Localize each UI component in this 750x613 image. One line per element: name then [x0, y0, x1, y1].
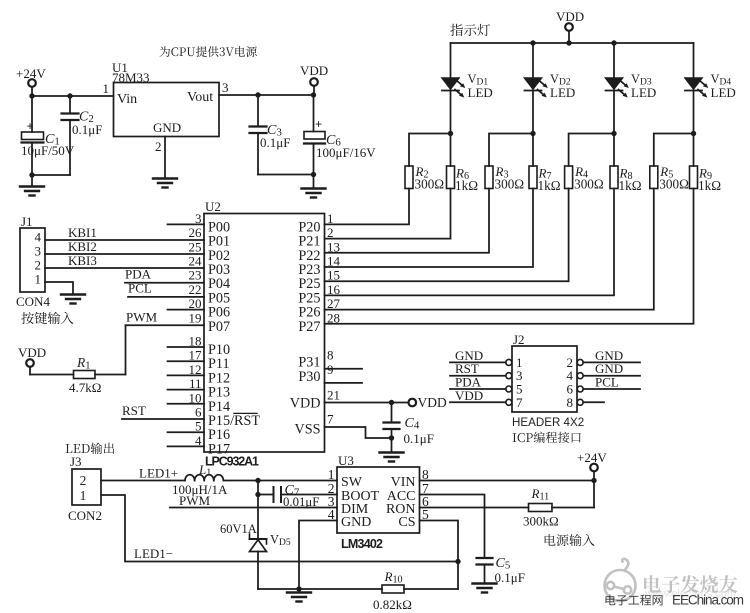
pin name P13 [208, 385, 230, 401]
wire node to R2 [409, 134, 451, 167]
wire SW node down to C7 node [257, 481, 259, 495]
pin number 28 (right) [327, 310, 340, 325]
svg-text:10μF/50V: 10μF/50V [21, 143, 75, 158]
svg-text:P27: P27 [298, 319, 320, 335]
svg-text:300Ω: 300Ω [574, 177, 604, 192]
svg-text:8: 8 [567, 395, 574, 410]
pin number 24 (left) [189, 254, 203, 269]
J2 pin 6 number [567, 382, 574, 397]
wire PWM to DIM [170, 493, 337, 508]
svg-text:Vin: Vin [117, 92, 137, 107]
svg-text:LED: LED [468, 85, 493, 100]
resistor R11 300k [523, 486, 559, 529]
node C3 tap [255, 92, 260, 97]
U3 pin name ACC [387, 481, 429, 504]
svg-text:13: 13 [327, 239, 340, 254]
wire C4 bottom [391, 429, 393, 438]
svg-text:6: 6 [195, 405, 202, 420]
connector J3 CON2 [68, 454, 102, 523]
J3 pin 1 number [80, 488, 87, 503]
svg-text:300kΩ: 300kΩ [523, 514, 559, 529]
svg-text:KBI1: KBI1 [68, 225, 97, 240]
pin name P25 (right) [298, 290, 320, 306]
wire node to R6 [450, 134, 452, 167]
wire C4 top [391, 403, 393, 423]
U3 pin name SW [328, 467, 363, 490]
svg-text:+24V: +24V [16, 66, 46, 81]
J2 pin 2 number [567, 355, 574, 370]
svg-text:Vout: Vout [187, 90, 213, 105]
resistor R5 300ohm [650, 164, 689, 192]
wire U2 VDD pin 21 [290, 388, 409, 412]
pin name P31 [298, 348, 333, 371]
node B (C2 tap) [67, 93, 72, 98]
capacitor C5 [477, 556, 525, 585]
wire J2 pin 5 (PDA) [450, 375, 506, 390]
node U3 GND rail [296, 586, 301, 591]
watermark ghost text [644, 588, 736, 600]
svg-text:22: 22 [189, 282, 202, 297]
wire R10 to CS riser [404, 562, 458, 590]
pin name P27 (right) [298, 319, 320, 335]
svg-text:0.82kΩ: 0.82kΩ [373, 597, 412, 612]
svg-text:RST: RST [122, 403, 146, 418]
node LED3 split [611, 131, 616, 136]
wire PDA to P04 [125, 282, 204, 284]
svg-text:+24V: +24V [577, 450, 607, 465]
wire LED VD1 cathode to node [450, 91, 452, 134]
wire J2 pin 4 (GND) [583, 361, 640, 376]
svg-text:4: 4 [35, 230, 42, 245]
U3 pin name DIM [328, 494, 369, 517]
pin name P02 [208, 248, 230, 264]
resistor R9 1kohm [690, 166, 722, 194]
wire C6 bottom [313, 144, 315, 175]
wire J2 pin 1 (GND) [450, 348, 506, 363]
resistor R7 1kohm [529, 166, 561, 194]
footer text EE site [605, 593, 744, 608]
svg-text:RST: RST [234, 413, 260, 429]
node C6 gnd [311, 172, 316, 177]
svg-text:VDD: VDD [18, 345, 46, 360]
pin number 13 (right) [327, 239, 340, 254]
svg-text:LM3402: LM3402 [341, 537, 383, 551]
wire RON to R11 [420, 507, 529, 509]
wire C6 top [313, 95, 315, 132]
svg-text:7: 7 [516, 395, 523, 410]
U3 pin name CS [398, 507, 429, 530]
svg-text:+: + [315, 118, 322, 132]
svg-text:23: 23 [189, 268, 202, 283]
MCU U2 LPC932A1 body [204, 199, 325, 469]
capacitor C4 [384, 416, 434, 446]
pin number 16 (right) [327, 282, 341, 297]
svg-text:PCL: PCL [128, 281, 152, 296]
svg-text:1: 1 [35, 272, 42, 287]
wire R1 to PWM riser [95, 325, 126, 374]
pin name P25 (right) [298, 276, 320, 292]
wire C3-C6 bottom join [258, 174, 314, 176]
node LED1-/CS/R10 [455, 559, 460, 564]
power terminal VDD (U2) [409, 395, 447, 410]
svg-text:U2: U2 [205, 199, 221, 214]
capacitor C3 [250, 123, 291, 150]
wire C2 bottom [69, 120, 71, 175]
pin number 2 (right) [327, 225, 334, 240]
svg-text:0.1μF: 0.1μF [404, 431, 434, 446]
svg-text:PWM: PWM [126, 309, 158, 324]
wire ACC to C5 [420, 495, 485, 559]
node VIN +24V [591, 478, 596, 483]
wire LED VD2 cathode to node [532, 91, 534, 134]
wire P31 stub [325, 368, 363, 370]
pin name P12 [208, 370, 230, 386]
wire C2 top [69, 96, 71, 114]
node rail-VDD [566, 40, 571, 45]
node C4 top [389, 400, 394, 405]
label HEADER 4X2 [512, 416, 584, 429]
node rail LED2 [530, 40, 535, 45]
svg-text:VDD: VDD [290, 396, 321, 412]
wire CS to node [420, 521, 459, 562]
svg-text:19: 19 [189, 310, 202, 325]
svg-text:28: 28 [327, 310, 340, 325]
power terminal +24V (driver) [577, 450, 607, 481]
svg-text:300Ω: 300Ω [415, 177, 445, 192]
wire C7 to BOOT [281, 494, 337, 496]
svg-text:27: 27 [327, 296, 341, 311]
node C4 bottom [389, 435, 394, 440]
svg-text:GND: GND [341, 515, 371, 530]
svg-text:25: 25 [189, 239, 202, 254]
label VD1 [468, 72, 493, 100]
J2 pin 8 number [567, 395, 574, 410]
resistor R10 0.82k [373, 569, 412, 612]
svg-text:300Ω: 300Ω [659, 177, 689, 192]
wire LED VD3 cathode to node [613, 91, 615, 134]
ground below C6 [302, 175, 326, 198]
caption: ICP programming port [513, 432, 581, 443]
svg-text:LED: LED [550, 85, 575, 100]
LED VD1 [442, 78, 465, 98]
svg-text:KBI3: KBI3 [68, 253, 97, 268]
pin number 10 (left) [189, 390, 202, 405]
wire C1-C2 bottom join [32, 174, 70, 176]
pin number 19 (left) [189, 310, 202, 325]
diode VD5 60V1A [220, 522, 291, 552]
node C1 gnd [29, 172, 34, 177]
caption: LED output [66, 442, 115, 454]
resistor R1 4.7k [69, 355, 101, 395]
pin number 14 (right) [327, 254, 341, 269]
J1 pin 3 number [35, 244, 42, 259]
caption: key input [21, 312, 73, 324]
label KBI3 [68, 253, 97, 268]
wire P20 pin 1 to resistor [325, 189, 410, 225]
svg-text:J1: J1 [21, 214, 33, 229]
wire U2 VSS pin 7 [294, 412, 391, 439]
pin name P16 [208, 427, 230, 443]
pin number 22 (left) [189, 282, 202, 297]
resistor R6 1kohm [447, 166, 479, 194]
node C6 tap [311, 92, 316, 97]
wire J1.1 to ground [45, 282, 73, 295]
svg-text:1kΩ: 1kΩ [619, 178, 642, 193]
ground below U1 [153, 179, 177, 188]
svg-text:2: 2 [35, 258, 42, 273]
pin name P14 [208, 399, 230, 415]
wire P13 stub [168, 389, 205, 391]
wire L1 to SW [223, 480, 337, 482]
svg-text:15: 15 [327, 268, 340, 283]
pin number 27 (right) [327, 296, 341, 311]
power terminal VDD (LED rail) [556, 9, 584, 43]
svg-text:21: 21 [327, 388, 340, 403]
wire rail to LED VD4 [693, 43, 695, 78]
wire P24 pin 15 to resistor [325, 189, 569, 282]
pin name P10 [208, 342, 230, 358]
wire P11 stub [168, 360, 205, 362]
svg-text:+: + [27, 120, 34, 134]
power terminal +24V [16, 66, 46, 87]
pin name P22 (right) [298, 248, 320, 264]
wire P12 stub [168, 374, 205, 376]
wire U3 GND to ground rail [299, 521, 337, 590]
svg-text:1kΩ: 1kΩ [698, 178, 721, 193]
wire node to R4 [569, 134, 614, 167]
svg-text:CON2: CON2 [68, 508, 102, 523]
wire C5 bottom [484, 565, 486, 584]
node C7 [255, 492, 260, 497]
J2 pin 6 circle [577, 386, 583, 392]
pin name P15/RST [208, 413, 260, 429]
ground below J1 [61, 295, 85, 304]
resistor R2 300ohm [405, 164, 444, 192]
label KBI1 [68, 225, 97, 240]
svg-text:4.7kΩ: 4.7kΩ [69, 380, 101, 395]
pin name P17 [208, 441, 230, 457]
J1 pin 4 number [35, 230, 42, 245]
pin name P26 (right) [298, 305, 320, 321]
wire C3 bottom [257, 133, 259, 175]
svg-text:P17: P17 [208, 441, 230, 457]
pin number 23 (left) [189, 268, 202, 283]
wire P26 pin 27 to resistor [325, 189, 654, 310]
wire C7 left [258, 494, 274, 496]
pin number 4 (left) [195, 433, 202, 448]
svg-text:P30: P30 [298, 369, 320, 385]
pin name P04 [208, 276, 230, 292]
regulator U1 78M33 [112, 60, 219, 137]
wire Vout to VDD node [219, 94, 314, 96]
node LED2 split [530, 131, 535, 136]
wire J1.4 KBI1 to P01 [45, 239, 204, 241]
J2 pin 1 circle [506, 359, 512, 365]
wire node to R3 [489, 134, 533, 167]
wire R11 to +24V riser [552, 507, 594, 509]
U3 pin name BOOT [328, 481, 380, 504]
pin number 12 (left) [189, 362, 202, 377]
svg-text:60V1A: 60V1A [220, 522, 257, 536]
wire P30 stub [325, 382, 363, 384]
svg-text:78M33: 78M33 [112, 70, 150, 85]
svg-text:3: 3 [222, 80, 229, 95]
svg-text:CON4: CON4 [16, 294, 50, 309]
caption: indicator lamps [450, 24, 490, 36]
label RST [122, 403, 146, 418]
caption: power input [545, 534, 595, 546]
inductor L1 [172, 462, 228, 497]
pin name P01 [208, 234, 230, 250]
ground below C4 [380, 438, 404, 462]
svg-text:3: 3 [35, 244, 42, 259]
wire node to R9 [693, 134, 695, 167]
J2 pin 4 number [567, 368, 574, 383]
J1 pin 1 number [35, 272, 42, 287]
node LED1 split [448, 131, 453, 136]
svg-text:1: 1 [328, 467, 335, 482]
svg-text:1: 1 [103, 81, 110, 96]
svg-text:1kΩ: 1kΩ [538, 178, 561, 193]
wire J2 pin 6 (PCL) [583, 375, 640, 390]
J2 pin 5 circle [506, 386, 512, 392]
resistor R8 1kohm [610, 166, 642, 194]
svg-text:SW: SW [341, 475, 363, 490]
node LED4 split [691, 131, 696, 136]
wire node to R8 [613, 134, 615, 167]
svg-text:2: 2 [80, 473, 87, 488]
wire LED VD4 cathode to node [693, 91, 695, 134]
J2 pin 4 circle [577, 373, 583, 379]
J2 pin 7 number [516, 395, 523, 410]
pin number 3 (left) [195, 211, 202, 226]
pin name P11 [208, 356, 230, 372]
wire J3.2 LED1+ [101, 466, 185, 481]
wire PWM to P07 [126, 324, 205, 326]
wire J2 pin 8 stub [583, 401, 604, 403]
svg-text:24: 24 [189, 254, 203, 269]
wire P17 stub [168, 445, 205, 447]
svg-text:1: 1 [80, 488, 87, 503]
LED VD3 [606, 78, 629, 98]
label PDA [125, 267, 152, 282]
svg-text:KBI2: KBI2 [68, 239, 97, 254]
svg-text:GND: GND [153, 120, 181, 135]
pin number 25 (left) [189, 239, 202, 254]
label VD3 [631, 72, 656, 100]
wire rail to LED VD2 [532, 43, 534, 78]
pin 3 label U1 [222, 80, 229, 95]
pin number 26 (left) [189, 225, 203, 240]
power terminal VDD (regulator out) [300, 63, 328, 95]
U3 pin name RON [386, 494, 429, 517]
pin number 18 (left) [189, 334, 202, 349]
wire D5 anode to ground rail [257, 552, 259, 590]
svg-text:1: 1 [327, 211, 334, 226]
wire J3.1 LED1- run [101, 495, 458, 562]
node SW [255, 478, 260, 483]
wire C3 top [257, 95, 259, 127]
connector J2 header body [512, 332, 577, 412]
pin name P06 [208, 305, 230, 321]
LED VD2 [525, 78, 548, 98]
svg-text:VDD: VDD [455, 388, 483, 403]
wire +24V down to R11 [593, 481, 595, 508]
power terminal VDD (R1) [18, 345, 46, 367]
svg-text:2: 2 [327, 225, 334, 240]
wire node to R7 [532, 134, 534, 167]
ground below C5 [473, 584, 497, 593]
wire P14 stub [168, 403, 205, 405]
svg-text:J3: J3 [70, 454, 82, 469]
svg-text:P07: P07 [208, 319, 230, 335]
resistor R4 300ohm [565, 164, 604, 192]
caption: 3V supply for CPU [160, 46, 257, 57]
pin 2 stem U1 GND [155, 137, 165, 179]
svg-text:LED: LED [631, 85, 656, 100]
J2 pin 5 number [516, 382, 523, 397]
pin name P00 [208, 219, 230, 235]
svg-text:300Ω: 300Ω [495, 177, 525, 192]
resistor R3 300ohm [485, 164, 524, 192]
wire ground rail left [258, 588, 382, 590]
J3 pin 2 number [80, 473, 87, 488]
capacitor C7 [274, 483, 320, 509]
wire PCL to P05 [128, 296, 204, 298]
svg-text:PCL: PCL [595, 375, 619, 390]
label PWM [126, 309, 158, 324]
pin number 6 (left) [195, 405, 202, 420]
svg-text:14: 14 [327, 254, 341, 269]
svg-text:0.1μF: 0.1μF [260, 135, 290, 150]
wire P00 stub [168, 223, 205, 225]
svg-text:J2: J2 [513, 332, 525, 347]
wire J2 pin 2 (GND) [583, 348, 640, 363]
pin name P07 [208, 319, 230, 335]
svg-text:CS: CS [398, 515, 415, 530]
pin number 15 (right) [327, 268, 340, 283]
svg-text:9: 9 [327, 362, 334, 377]
capacitor C2 [62, 110, 103, 138]
svg-text:2: 2 [155, 139, 162, 154]
svg-text:EEChina.com: EEChina.com [672, 593, 744, 608]
svg-text:LED: LED [711, 85, 736, 100]
pin number 17 (left) [189, 348, 203, 363]
wire J1.2 KBI3 to P03 [45, 267, 204, 269]
svg-text:PWM: PWM [179, 493, 211, 508]
svg-text:1kΩ: 1kΩ [455, 178, 478, 193]
pin name P03 [208, 262, 230, 278]
wire +24V rail to U1 Vin [32, 95, 114, 97]
pin name P21 (right) [298, 234, 320, 250]
wire J1.3 KBI2 to P02 [45, 253, 204, 255]
label VD2 [550, 72, 575, 100]
J2 pin 1 number [516, 355, 523, 370]
pin number 5 (left) [195, 419, 202, 434]
label PCL [128, 281, 152, 296]
watermark logo (elecfans) [605, 559, 636, 601]
pin name P05 [208, 290, 230, 306]
wire C7 node to D5 [257, 495, 259, 540]
svg-text:0.1μF: 0.1μF [72, 122, 102, 137]
J2 pin 3 circle [506, 373, 512, 379]
svg-text:26: 26 [189, 225, 203, 240]
svg-text:VDD: VDD [556, 9, 584, 24]
LED top rail [451, 42, 694, 44]
svg-text:LED1−: LED1− [134, 546, 173, 561]
svg-text:PDA: PDA [125, 267, 152, 282]
wire P27 pin 28 to resistor [325, 189, 694, 324]
